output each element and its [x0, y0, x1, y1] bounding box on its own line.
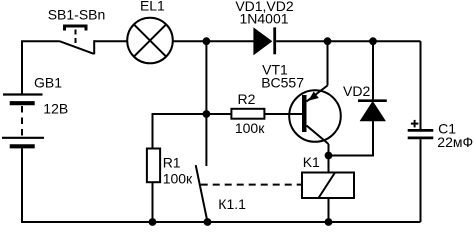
wire lamp to diode VD1: [173, 40, 254, 42]
wire bottom rail: [21, 221, 421, 223]
wire battery minus to bottom rail: [21, 148, 23, 222]
lamp EL1: [127, 18, 173, 64]
wire switch to lamp: [94, 40, 127, 42]
svg-text:R2: R2: [238, 91, 256, 107]
diode VD1: [254, 27, 275, 54]
wire to R1: [153, 114, 207, 149]
wire collector node to VD2 anode: [329, 121, 374, 156]
svg-text:100к: 100к: [163, 170, 193, 186]
resistor R2: [231, 109, 264, 119]
node junction top rail VD2: [369, 37, 377, 45]
svg-text:1N4001: 1N4001: [239, 11, 288, 27]
node junction collector/relay/VD2: [325, 152, 333, 160]
wire right rail top (to C1): [420, 41, 422, 129]
battery GB1: [2, 95, 44, 147]
svg-text:100к: 100к: [235, 120, 265, 136]
wire to R2: [206, 113, 231, 115]
capacitor C1: [408, 120, 434, 138]
wire C1 to bottom rail: [420, 139, 422, 222]
svg-text:K1: K1: [303, 154, 320, 170]
svg-text:SB1-SBn: SB1-SBn: [48, 7, 106, 23]
wire collector riser: [328, 144, 330, 173]
node junction top rail at x=206: [203, 37, 211, 45]
svg-text:22мФ: 22мФ: [437, 134, 473, 150]
svg-text:R1: R1: [163, 155, 181, 171]
wire R2 to base: [264, 113, 302, 115]
relay coil K1: [302, 173, 354, 199]
svg-text:12В: 12В: [43, 101, 68, 117]
node junction bottom rail relay: [325, 218, 333, 226]
svg-text:GB1: GB1: [34, 75, 62, 91]
mechanical link dashed K1.1 to K1: [201, 184, 302, 186]
node junction top rail emitter: [324, 37, 332, 45]
wire left rail top (battery + to top rail corner): [22, 41, 60, 94]
wire vertical x=206 from top rail to K1.1 fixed contact: [205, 41, 207, 166]
wire VD2 cathode to top rail: [372, 41, 374, 99]
node junction bottom rail R1: [149, 218, 157, 226]
wire R1 to bottom rail: [152, 182, 154, 222]
svg-text:BC557: BC557: [261, 75, 304, 91]
resistor R1: [147, 149, 160, 183]
switch SB1-SBn: [60, 26, 95, 54]
contact K1.1 lever: [196, 165, 208, 222]
wire relay to bottom rail: [328, 198, 330, 222]
wire emitter riser: [327, 41, 329, 85]
node junction bottom rail K1.1: [204, 218, 212, 226]
svg-text:К1.1: К1.1: [218, 196, 246, 212]
diode VD2: [358, 101, 387, 121]
transistor VT1: [289, 86, 341, 145]
wire diode to top-right corner: [276, 40, 420, 42]
node junction R2/R1 net: [203, 110, 211, 118]
svg-text:VD2: VD2: [343, 83, 370, 99]
svg-text:EL1: EL1: [140, 0, 165, 13]
